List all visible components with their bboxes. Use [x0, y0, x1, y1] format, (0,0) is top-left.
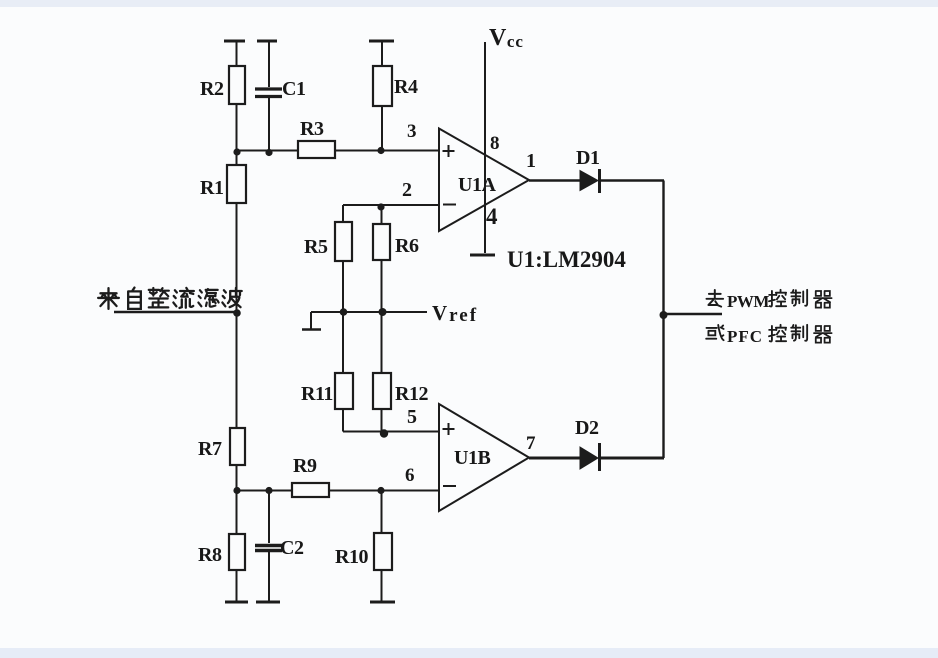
- wire U1B output to D2: [529, 457, 581, 460]
- capacitor C2: [255, 546, 282, 551]
- wire R11 top stem: [342, 312, 344, 373]
- svg-text:R2: R2: [200, 78, 224, 100]
- svg-text:U1:LM2904: U1:LM2904: [507, 247, 626, 272]
- svg-text:Vref: Vref: [432, 301, 478, 326]
- wire U1A output to D1: [529, 179, 581, 182]
- terminal bar R4 top: [369, 40, 394, 43]
- wire R5 bottom to Vref node: [342, 261, 344, 312]
- svg-text:R12: R12: [395, 383, 428, 405]
- node R10/pin6: [377, 487, 384, 494]
- resistor R3: [298, 141, 335, 158]
- resistor R9: [292, 483, 329, 497]
- wire R4 bottom to pin3 row: [381, 106, 383, 150]
- ground bar R8: [225, 601, 248, 604]
- wire R2 top stem: [236, 41, 238, 66]
- terminal bar R2 top: [224, 40, 245, 43]
- wire C2 stem: [268, 491, 270, 602]
- node C1: [265, 149, 272, 156]
- svg-text:C2: C2: [280, 537, 304, 559]
- resistor R2: [229, 66, 245, 104]
- svg-text:8: 8: [490, 133, 500, 154]
- wire C1 bottom to node row: [268, 98, 270, 151]
- wire R8 stem: [236, 491, 238, 602]
- node R7/R8: [233, 487, 240, 494]
- node junction dots: [233, 147, 667, 494]
- svg-text:U1A: U1A: [458, 174, 496, 196]
- svg-text:C1: C1: [282, 78, 305, 100]
- ground bar C2: [256, 601, 280, 604]
- resistor R12: [373, 373, 391, 409]
- wire pin2 row: [343, 205, 439, 222]
- wire main left rail R1 to R7 node: [236, 151, 238, 490]
- capacitor C1: [255, 89, 282, 97]
- wire node row to op-amp pin 3: [237, 150, 440, 152]
- wire R11 bottom to pin5: [343, 409, 439, 432]
- node R6/pin2: [377, 203, 384, 210]
- svg-text:2: 2: [402, 179, 412, 201]
- resistor R7: [230, 428, 245, 465]
- svg-text:R7: R7: [198, 438, 222, 460]
- node C2: [265, 487, 272, 494]
- svg-text:PWM: PWM: [727, 292, 769, 311]
- resistor R1: [227, 165, 246, 203]
- resistor R10: [374, 533, 392, 570]
- svg-text:PFC: PFC: [727, 327, 763, 346]
- svg-text:R4: R4: [394, 76, 418, 98]
- op-amp U1A: [439, 129, 529, 232]
- svg-text:R6: R6: [395, 235, 419, 257]
- wire R2 bottom to node A: [236, 104, 238, 151]
- svg-text:R9: R9: [293, 455, 317, 477]
- svg-text:3: 3: [407, 121, 417, 142]
- svg-text:6: 6: [405, 465, 415, 486]
- svg-text:R10: R10: [335, 546, 368, 568]
- ground bar pin4: [470, 254, 495, 257]
- resistor R11: [335, 373, 353, 409]
- svg-text:R8: R8: [198, 544, 222, 566]
- wire right vertical rail: [662, 181, 664, 459]
- node R12/pin5: [380, 429, 388, 437]
- diode D2: [580, 447, 598, 469]
- node output rail: [660, 311, 668, 319]
- ground bar R10: [370, 601, 395, 604]
- resistor R5: [335, 222, 352, 261]
- top blue strip: [0, 0, 938, 7]
- node R5/R11/Vref: [340, 308, 348, 316]
- wire input underline stub: [114, 311, 237, 313]
- svg-text:U1B: U1B: [454, 447, 490, 469]
- resistor R8: [229, 534, 245, 570]
- svg-text:5: 5: [407, 406, 417, 428]
- text 去PWM控制器: [706, 290, 831, 311]
- wire output stub right: [664, 313, 723, 315]
- node input rail: [233, 309, 241, 317]
- wire D1 to right corner: [599, 179, 664, 182]
- svg-text:R3: R3: [300, 118, 324, 140]
- wire C1 top stem: [268, 41, 270, 87]
- wire Vref row: [311, 311, 427, 313]
- ground mid bar: [302, 328, 321, 331]
- wire R10 stem: [381, 491, 383, 602]
- wire R12 top stem: [381, 312, 383, 373]
- svg-text:R5: R5: [304, 236, 328, 258]
- text 或PFC控制器: [706, 325, 831, 346]
- wire R12 bottom stem: [381, 409, 383, 433]
- svg-text:7: 7: [526, 433, 536, 454]
- wire R6 top stem: [381, 205, 383, 224]
- resistor R6: [373, 224, 390, 260]
- resistor R4: [373, 66, 392, 106]
- wire Vcc line through U1A pins 8 and 4: [484, 42, 486, 253]
- svg-text:R1: R1: [200, 177, 223, 199]
- svg-text:1: 1: [526, 150, 536, 172]
- svg-text:4: 4: [486, 204, 498, 229]
- wire R6 bottom to Vref node: [381, 260, 383, 312]
- svg-text:D1: D1: [576, 147, 599, 169]
- diode D1: [580, 171, 598, 191]
- terminal bar C1 top: [257, 40, 277, 43]
- op-amp U1B: [439, 404, 529, 511]
- wire D2 to right corner: [599, 457, 664, 460]
- svg-text:D2: D2: [575, 417, 599, 439]
- node R6/R12/Vref: [379, 308, 387, 316]
- node R2/R1: [233, 148, 240, 155]
- text 来自整流滤波: [98, 288, 242, 309]
- ground mid stem: [310, 312, 312, 329]
- wire pin6 row: [237, 490, 440, 492]
- wire R4 top stem: [381, 41, 383, 66]
- bottom blue strip: [0, 648, 938, 658]
- svg-text:R11: R11: [301, 383, 333, 405]
- node R4/pin3: [377, 147, 384, 154]
